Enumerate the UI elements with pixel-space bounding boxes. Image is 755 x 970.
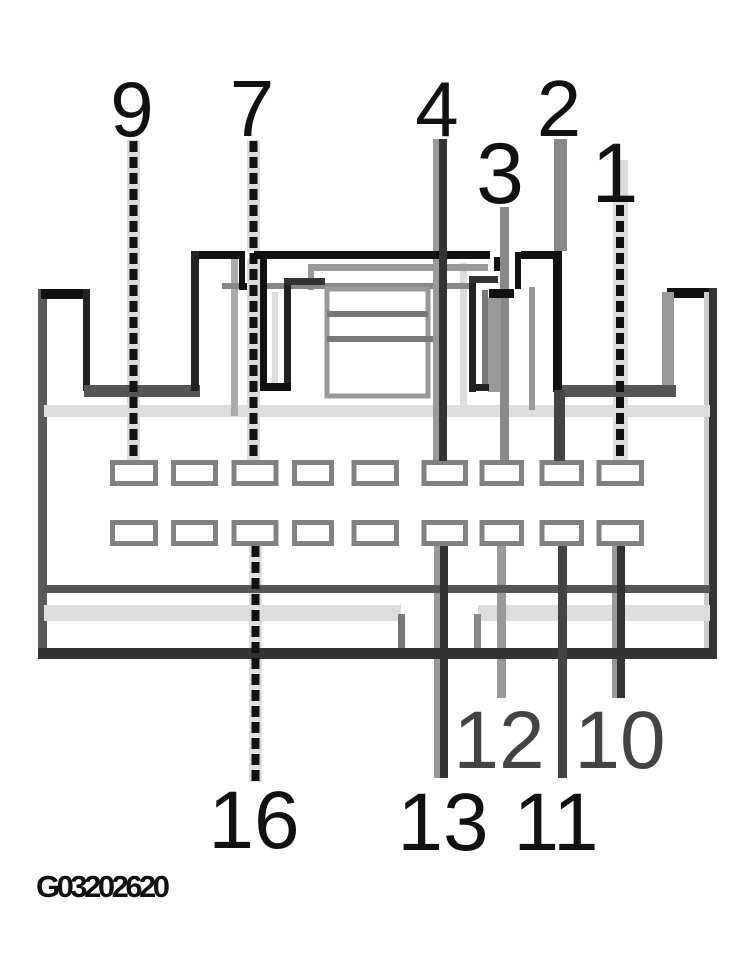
right clip: bottom join xyxy=(469,384,489,391)
raised center section: right inner gray wall xyxy=(529,287,535,410)
leader wire pin 13: dark core xyxy=(440,546,448,778)
center latch rectangle xyxy=(327,289,428,396)
pin cavity top row 1 (pin 9) xyxy=(113,463,156,484)
connector body: left shelf edge xyxy=(84,385,200,397)
svg-text:9: 9 xyxy=(110,65,153,153)
pin cavity bottom row 8 (pin 11) xyxy=(542,523,582,544)
svg-text:13: 13 xyxy=(397,777,488,868)
pin cavity top row 6 (pin 4) xyxy=(424,463,466,484)
right clip: outer vertical xyxy=(469,277,476,392)
connector body: right ear top edge xyxy=(667,288,716,298)
leader wire pin 10: gray fringe xyxy=(612,546,625,585)
center latch inner line 2 xyxy=(327,336,434,342)
svg-text:3: 3 xyxy=(476,126,524,222)
svg-text:G03202620: G03202620 xyxy=(36,869,169,904)
connector body: bottom light band left xyxy=(44,605,401,621)
leader wire pin 10: dark core xyxy=(617,546,625,698)
connector body: bottom wall xyxy=(38,648,717,659)
left clip: inner light strip xyxy=(272,292,278,384)
connector body: right ear inner wall xyxy=(662,292,674,391)
pin cavity top row 9 (pin 1) xyxy=(599,463,642,484)
right clip: black bar xyxy=(489,289,514,298)
leader wire pin 11 xyxy=(558,546,567,778)
pin cavity top row 4 (pin 6) xyxy=(295,463,332,484)
pin cavity bottom row 9 (pin 10) xyxy=(599,523,642,544)
leader wire pin 3 xyxy=(500,207,509,461)
right clip: gray band xyxy=(488,298,501,392)
pin cavity bottom row 7 (pin 12) xyxy=(482,523,522,544)
pin cavity top row 2 (pin 8) xyxy=(174,463,216,484)
connector body: mid light band xyxy=(44,405,710,417)
leader wire pin 2: upper segment xyxy=(554,139,567,251)
raised center section: top edge middle segment xyxy=(254,251,490,259)
connector body: right shelf edge xyxy=(559,385,676,397)
raised center section: inner line B xyxy=(222,283,470,289)
connector body: bottom light band right xyxy=(478,605,710,621)
right clip: top horizontal xyxy=(469,276,498,283)
connector body: bottom tick left xyxy=(398,614,405,648)
left clip: notch step horizontal xyxy=(239,283,266,290)
svg-text:7: 7 xyxy=(230,64,275,153)
pin cavity top row 7 (pin 3) xyxy=(482,463,522,484)
leader wire pin 7: dashed line xyxy=(250,141,258,460)
pin cavity bottom row 4 xyxy=(295,523,332,544)
left clip: top horizontal arm xyxy=(284,278,325,285)
connector body: left ear inner wall xyxy=(83,289,90,391)
pin cavity top row 3 (pin 7) xyxy=(234,463,276,484)
svg-text:10: 10 xyxy=(574,695,665,786)
leader wire pin 2: lower segment xyxy=(554,390,565,461)
pin cavity bottom row 1 xyxy=(113,523,156,544)
raised section notch stub left of pin3 leader xyxy=(494,257,500,271)
pin cavity bottom row 3 (pin 16) xyxy=(234,523,276,544)
raised center section: right edge xyxy=(553,251,562,392)
raised center section: inner line A left stub xyxy=(308,264,314,290)
pin cavity top row 5 (pin 5) xyxy=(354,463,397,484)
svg-text:2: 2 xyxy=(537,64,582,153)
pin cavity bottom row 5 xyxy=(354,523,397,544)
svg-text:11: 11 xyxy=(513,777,598,868)
connector body: left ear top edge xyxy=(41,289,90,299)
raised center section: top edge right segment xyxy=(521,251,562,259)
raised center section: inner line A xyxy=(308,264,488,271)
connector body: right outer wall xyxy=(709,288,717,659)
pin cavity top row 8 (pin 2) xyxy=(542,463,582,484)
raised center section: left inner gray wall xyxy=(231,259,238,416)
connector body: left outer wall xyxy=(38,289,47,659)
leader wire pin 12 xyxy=(497,546,506,585)
raised center section: left edge xyxy=(191,251,199,391)
svg-text:16: 16 xyxy=(208,775,299,866)
raised center section: top edge left segment (tower top) xyxy=(191,251,245,259)
leader wire pin 4: dark core xyxy=(439,139,447,461)
leader wire pin 1: light backing xyxy=(613,160,628,385)
svg-text:1: 1 xyxy=(592,126,639,220)
connector body: inner bottom line xyxy=(44,585,710,593)
left clip: right vertical xyxy=(284,278,291,390)
leader wire pin 16: dashed line xyxy=(252,546,260,781)
left clip: bottom join xyxy=(260,383,291,391)
leader wire pin 4: gray fringe xyxy=(433,139,447,251)
center latch right shadow xyxy=(433,290,439,396)
pin cavity bottom row 6 (pin 13) xyxy=(424,523,466,544)
left clip: left vertical xyxy=(260,255,267,390)
left clip: notch step vertical xyxy=(239,253,245,290)
raised center section: right inner light wall xyxy=(460,263,467,415)
connector body: bottom tick right xyxy=(474,614,481,648)
leader wire pin 13: gray fringe xyxy=(434,546,448,585)
connector body: right outer wall light fringe xyxy=(704,292,709,659)
leader wire pin 9: light backing xyxy=(127,140,140,385)
leader wire pin 9: dashed line xyxy=(130,141,138,460)
leader wire pin 1: dashed line xyxy=(616,205,624,460)
raised section notch stub right of pin3 leader xyxy=(515,252,521,289)
leader wire pin 16: light backing xyxy=(249,546,262,585)
right clip: gray vertical xyxy=(482,290,488,386)
svg-text:4: 4 xyxy=(415,65,458,153)
center latch inner line 1 xyxy=(327,311,428,317)
pin cavity bottom row 2 xyxy=(174,523,216,544)
svg-text:12: 12 xyxy=(453,695,544,786)
leader wire pin 7: light backing xyxy=(247,140,260,251)
